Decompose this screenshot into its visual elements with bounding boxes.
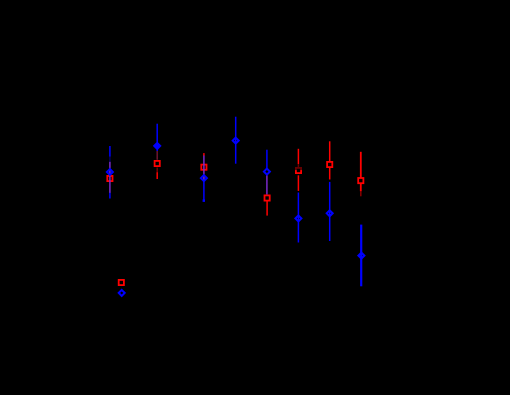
cluster G blue error bar (329, 182, 331, 241)
cluster F blue error bar (297, 193, 299, 243)
cluster A blue error bar lower segment (109, 193, 111, 199)
cluster C purple overlap segment (203, 156, 205, 181)
cluster A blue error bar upper segment (109, 146, 111, 157)
cluster H red square marker (358, 178, 363, 183)
cluster A blue diamond marker (107, 169, 113, 175)
cluster B blue diamond marker (154, 143, 160, 149)
cluster G blue diamond marker (327, 210, 333, 216)
cluster A purple overlap segment (109, 162, 111, 193)
cluster E blue error bar upper segment (266, 150, 268, 169)
cluster E red error bar lower segment (266, 201, 268, 215)
cluster C blue bar end blob (203, 199, 205, 202)
cluster D blue diamond marker (233, 138, 239, 144)
cluster C red square marker (201, 165, 206, 170)
cluster C blue error bar lower segment (203, 181, 205, 202)
cluster C red error bar top tick (203, 153, 205, 156)
cluster F black overlay on square top (295, 164, 303, 170)
cluster C blue diamond marker (201, 175, 207, 181)
cluster F blue diamond marker (295, 215, 301, 221)
cluster E red square marker (265, 195, 270, 200)
cluster B red error bar lower segment (156, 172, 158, 179)
cluster B dark red upper segment (156, 151, 158, 160)
cluster D blue error bar (235, 117, 237, 164)
cluster H blue error bar (360, 225, 362, 287)
cluster E purple overlap segment (266, 175, 268, 195)
cluster A dark gap segment (109, 157, 111, 162)
cluster E blue diamond marker (264, 169, 270, 175)
cluster H red error bar lower segment (360, 184, 362, 191)
cluster H blue diamond marker (358, 253, 364, 259)
cluster A red square marker (107, 176, 112, 181)
cluster G red error bar (329, 141, 331, 179)
cluster B red square marker (155, 161, 160, 166)
cluster H red error bar upper segment (360, 152, 362, 178)
cluster B dim red segment (156, 168, 158, 173)
cluster F red error bar upper segment (297, 149, 299, 167)
cluster H dim red tail segment (360, 191, 362, 196)
cluster F red square marker (296, 168, 301, 173)
cluster B blue error bar (156, 124, 158, 151)
cluster F red error bar lower segment (297, 175, 299, 191)
legend red square marker (119, 280, 124, 285)
legend blue diamond marker (119, 290, 125, 296)
cluster G red square marker (327, 162, 332, 167)
